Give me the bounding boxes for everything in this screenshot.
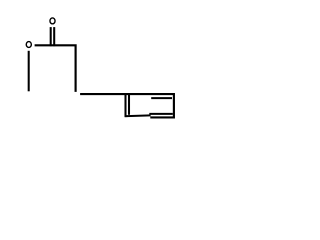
- benzene ring top-right double-bond inner line: [151, 97, 172, 99]
- atom O (ester oxygen label): [26, 42, 31, 48]
- atom O (carbonyl oxygen label): [50, 18, 55, 24]
- double bond C=O line 2: [53, 27, 55, 46]
- bond CH2-ring, ring top edge, ring right edge, ring bottom-right outer edge: [80, 94, 174, 117]
- bond O-C(=O), bond C-CH2 and bond CH2-CH2 (ester arm with corner): [35, 45, 76, 92]
- benzene ring bottom-right double-bond inner line: [149, 113, 173, 115]
- benzene ring left edge (outer): [124, 94, 126, 117]
- benzene ring bottom-left edge: [125, 114, 151, 117]
- double bond C=O line 1: [50, 27, 52, 46]
- benzene ring left double-bond inner line: [128, 94, 130, 115]
- bond O-CH3 (methyl bond): [28, 51, 30, 92]
